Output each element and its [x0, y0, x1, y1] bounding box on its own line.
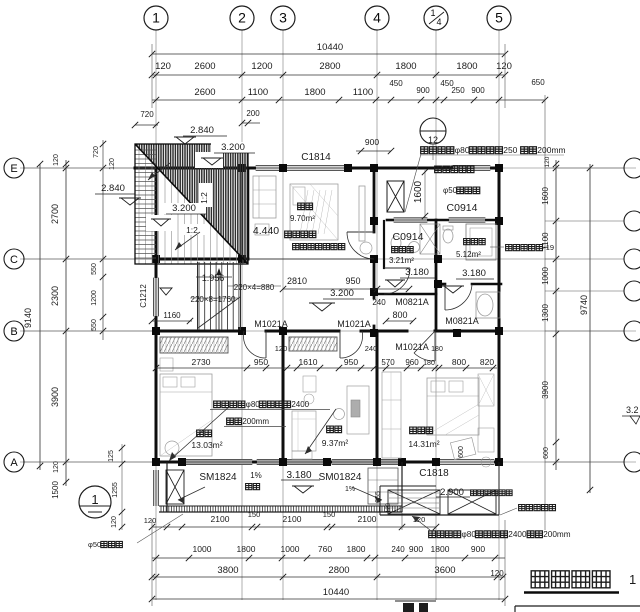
svg-text:9.37m²: 9.37m² [322, 438, 349, 448]
grid bubble 4 [365, 6, 389, 30]
svg-text:10440: 10440 [317, 42, 343, 53]
AC hatch box 1 [388, 490, 440, 514]
svg-text:1: 1 [629, 572, 636, 587]
grid line 1 [155, 30, 157, 600]
roof arrows [148, 163, 170, 180]
svg-text:200: 200 [246, 109, 260, 118]
svg-text:240: 240 [365, 344, 378, 353]
svg-text:C1818: C1818 [419, 468, 449, 479]
svg-text:1600: 1600 [541, 187, 550, 205]
svg-text:1255: 1255 [112, 482, 119, 498]
study label [327, 426, 334, 433]
roof ridge diagonal [135, 144, 248, 264]
sink left bath [409, 242, 420, 253]
svg-text:C0914: C0914 [447, 202, 478, 214]
bed bedroom1 [160, 374, 212, 456]
svg-text:900: 900 [365, 137, 379, 147]
svg-text:1100: 1100 [248, 87, 268, 98]
svg-text:1000: 1000 [193, 544, 212, 554]
wall B [154, 330, 244, 333]
svg-text:B: B [10, 326, 17, 338]
AC outdoor unit label top [435, 166, 442, 173]
svg-text:1800: 1800 [395, 61, 416, 72]
roof hatched area [136, 144, 248, 264]
grid line 2 [241, 30, 243, 600]
cabinet master right 2 [478, 428, 494, 452]
grid bubble E [4, 158, 24, 178]
left dim main column [65, 160, 67, 486]
svg-text:10440: 10440 [323, 587, 349, 598]
svg-text:C: C [10, 254, 18, 266]
svg-text:250: 250 [451, 86, 465, 95]
bottom dim row 3 [152, 576, 505, 578]
left dim line 9140 [39, 164, 41, 470]
svg-text:3900: 3900 [541, 381, 550, 399]
svg-text:2800: 2800 [328, 565, 349, 576]
window C1212 [153, 278, 159, 316]
stool bedroom1 [165, 441, 179, 455]
svg-text:φ50: φ50 [88, 540, 101, 549]
svg-text:M1021A: M1021A [395, 342, 429, 352]
balcony outline [166, 462, 168, 512]
svg-text:φ80: φ80 [246, 400, 261, 409]
stair landing marker [160, 288, 172, 295]
duct shaft between baths [420, 224, 440, 254]
svg-text:4: 4 [373, 10, 381, 26]
title 二层平面 [531, 571, 549, 588]
chair/plant study [303, 376, 316, 392]
wardrobe master (west wall) [382, 372, 401, 458]
svg-text:1.956: 1.956 [202, 273, 225, 283]
svg-text:4: 4 [436, 17, 441, 27]
grid bubble 1/4 [424, 6, 448, 30]
title underline [524, 591, 619, 593]
svg-text:240: 240 [391, 545, 405, 554]
grid line 3 [282, 30, 284, 600]
svg-text:φ80: φ80 [461, 530, 476, 539]
svg-text:800: 800 [392, 310, 407, 320]
svg-text:1: 1 [91, 492, 98, 507]
plant corner living [360, 242, 372, 254]
frame box corner bottom-right [515, 605, 640, 607]
door M0821A right bath (wall y=284) [444, 284, 446, 310]
svg-text:C0914: C0914 [393, 231, 424, 243]
svg-text:φ50: φ50 [443, 186, 458, 195]
sliding door SM1824 [182, 459, 252, 465]
wall y=294 bath left bottom [372, 293, 436, 296]
svg-text:960: 960 [405, 358, 419, 367]
svg-text:C1212: C1212 [139, 284, 148, 308]
svg-text:1%: 1% [345, 486, 355, 493]
AC outdoor unit bottom [519, 505, 525, 511]
wall x=248 living west [247, 168, 250, 259]
svg-text:655: 655 [375, 491, 382, 503]
svg-text:1800: 1800 [237, 544, 256, 554]
staircase [199, 262, 239, 330]
svg-text:1:2: 1:2 [186, 225, 198, 235]
svg-text:3.21m²: 3.21m² [389, 256, 414, 265]
window C0914 right bath [449, 218, 485, 223]
columns (black squares) [238, 164, 246, 172]
detail bubble 12 [420, 118, 446, 144]
svg-text:950: 950 [345, 276, 360, 286]
svg-text:SM1824: SM1824 [199, 472, 237, 483]
svg-text:3600: 3600 [434, 565, 455, 576]
table master (rotated) [450, 438, 475, 460]
AC platform outline [379, 486, 381, 515]
wall y=220 bath top [387, 219, 394, 222]
svg-text:950: 950 [254, 357, 268, 367]
door M0821A left bath (on wall x=384) [384, 267, 410, 269]
roof outline [135, 144, 248, 264]
svg-text:120: 120 [144, 516, 157, 525]
cut-off drawing bottom [395, 600, 436, 602]
stair up arrow [218, 272, 220, 330]
right grid half-bubble y=291 [624, 281, 640, 301]
svg-text:1800: 1800 [304, 87, 325, 98]
svg-text:120: 120 [544, 156, 551, 167]
hall dims 2810/950 [283, 288, 409, 290]
bed master bedroom [427, 378, 479, 435]
svg-text:5.12m²: 5.12m² [456, 250, 481, 259]
svg-text:950: 950 [344, 357, 358, 367]
bathtub right bath [466, 224, 496, 260]
door living room (x=377 wall) [347, 231, 374, 233]
bottom dim row 2 [152, 557, 505, 559]
svg-text:550: 550 [91, 319, 98, 331]
svg-text:12: 12 [428, 135, 438, 145]
svg-text:220×8=1760: 220×8=1760 [191, 295, 236, 304]
svg-text:2300: 2300 [50, 286, 60, 306]
AC note bedroom1 [214, 401, 221, 408]
svg-text:720: 720 [140, 110, 154, 119]
right grid half-bubble y=221 [624, 211, 640, 231]
svg-text:120: 120 [496, 61, 512, 72]
bench study [292, 411, 316, 451]
left dim sub column [102, 140, 104, 340]
svg-text:240: 240 [372, 298, 386, 307]
svg-text:650: 650 [531, 78, 545, 87]
svg-text:1160: 1160 [163, 311, 181, 320]
AC hatch box 2 [448, 490, 496, 514]
svg-text:E: E [10, 163, 17, 175]
svg-text:2.900: 2.900 [440, 487, 464, 498]
svg-text:2100: 2100 [211, 514, 230, 524]
svg-text:200mm: 200mm [537, 145, 565, 155]
grid line 1/4 [435, 30, 437, 600]
svg-text:180: 180 [423, 360, 435, 367]
bottom dim row 1 (balcony) [152, 526, 436, 528]
svg-text:120: 120 [155, 61, 171, 72]
svg-text:SM01824: SM01824 [319, 472, 362, 483]
white halos under roof texts [211, 142, 255, 153]
stair break line [198, 297, 240, 328]
svg-text:A: A [10, 457, 18, 469]
wall x=377 bedroom divider south [376, 331, 379, 462]
svg-text:600: 600 [543, 447, 550, 459]
toilet left bath [391, 236, 401, 250]
svg-text:9740: 9740 [579, 295, 589, 315]
svg-text:120: 120 [111, 516, 118, 528]
grid line A [20, 461, 636, 463]
svg-text:200mm: 200mm [242, 417, 269, 426]
svg-text:1500: 1500 [51, 481, 60, 499]
svg-text:1300: 1300 [541, 304, 550, 322]
svg-text:3.200: 3.200 [172, 203, 196, 214]
toilet right bath [443, 229, 453, 243]
svg-text:9.70m²: 9.70m² [290, 214, 315, 223]
svg-text:570: 570 [381, 358, 395, 367]
svg-text:9140: 9140 [23, 308, 33, 328]
svg-text:1100: 1100 [353, 87, 373, 98]
section bubble 1 [79, 486, 111, 518]
wall C (stair top) [154, 258, 248, 261]
svg-text:1800: 1800 [431, 544, 450, 554]
grid bubble 3 [271, 6, 295, 30]
grid line E [20, 167, 636, 169]
svg-text:3: 3 [279, 10, 287, 26]
svg-text:13.03m²: 13.03m² [191, 440, 222, 450]
svg-text:1200: 1200 [91, 290, 98, 306]
grid bubble 2 [230, 6, 254, 30]
right grid half-bubble y=331 [624, 321, 640, 341]
right grid half-bubble y=259 [624, 249, 640, 269]
svg-text:120: 120 [275, 344, 288, 353]
right dim column [555, 160, 557, 470]
balcony railing hatch [161, 507, 400, 512]
note bath detail [506, 245, 512, 251]
svg-text:M0821A: M0821A [445, 316, 479, 326]
svg-text:1000: 1000 [541, 267, 550, 285]
svg-text:3.180: 3.180 [462, 268, 486, 279]
svg-text:900: 900 [409, 544, 423, 554]
grid line C [20, 258, 556, 260]
wall x=436 bath divider [435, 220, 438, 331]
living room labels [298, 203, 305, 210]
svg-text:-19: -19 [543, 243, 554, 252]
svg-text:2800: 2800 [319, 61, 340, 72]
svg-text:900: 900 [471, 86, 485, 95]
svg-text:180: 180 [431, 346, 443, 353]
svg-text:820: 820 [480, 357, 494, 367]
svg-text:2400: 2400 [508, 530, 527, 539]
svg-text:120: 120 [386, 502, 392, 513]
svg-text:3.200: 3.200 [221, 142, 245, 153]
svg-text:200mm: 200mm [543, 530, 570, 539]
extension verticals top [151, 44, 153, 108]
sofa living room [253, 176, 276, 218]
svg-text:1000: 1000 [281, 544, 300, 554]
grid bubble C [4, 249, 24, 269]
bedroom1 label [197, 430, 204, 437]
top dimension row 2 [152, 74, 505, 76]
desk study (right wall) [347, 386, 369, 434]
right dim 9740 [589, 164, 591, 493]
master bedroom label [410, 427, 417, 434]
svg-text:1800: 1800 [456, 61, 477, 72]
svg-text:2730: 2730 [192, 357, 211, 367]
svg-text:120: 120 [53, 154, 60, 166]
svg-text:M0821A: M0821A [395, 297, 429, 307]
svg-text:760: 760 [318, 544, 332, 554]
wardrobe bedroom1 (hatched) [160, 337, 228, 353]
nightstand bedroom1 [160, 358, 173, 371]
svg-text:2.840: 2.840 [101, 183, 125, 194]
door M1021A master bedroom [414, 331, 435, 353]
left bubbles leader lines [23, 167, 156, 169]
svg-text:2600: 2600 [194, 61, 215, 72]
svg-text:3.2: 3.2 [626, 405, 639, 415]
svg-text:2.840: 2.840 [190, 125, 214, 136]
svg-text:M1021A: M1021A [337, 319, 371, 329]
shaft with X (duct) [387, 181, 404, 212]
balcony AC unit box [166, 470, 184, 504]
svg-text:120: 120 [490, 569, 504, 578]
svg-text:2100: 2100 [358, 514, 377, 524]
door M1021A bedroom 1 (wall B) [265, 331, 267, 358]
wall x=242 roof/stair [241, 168, 243, 259]
bottom dim row 4 10440 [152, 598, 505, 600]
svg-text:3.180: 3.180 [405, 267, 429, 278]
grid bubble A [4, 452, 24, 472]
window C1818 [437, 459, 494, 465]
svg-text:900: 900 [471, 544, 485, 554]
svg-text:3900: 3900 [50, 387, 60, 407]
wall x=499 right exterior [498, 168, 501, 463]
wall x=283 bedroom divider [282, 331, 285, 462]
partition line living/hall (user-built) [248, 258, 377, 260]
cabinet master right 1 [478, 374, 494, 406]
grid line B [20, 330, 636, 332]
svg-text:2600: 2600 [194, 87, 215, 98]
window C1814 [256, 165, 348, 171]
svg-text:550: 550 [91, 263, 98, 275]
svg-text:120: 120 [53, 461, 60, 473]
right bath labels [464, 239, 470, 245]
svg-text:1600: 1600 [413, 180, 424, 203]
grid line 4 [376, 30, 378, 600]
svg-text:125: 125 [108, 450, 115, 462]
bed living room [290, 184, 338, 240]
svg-text:2100: 2100 [283, 514, 302, 524]
wall y=284 right bath bottom [436, 283, 445, 286]
right bubble leaders [545, 167, 624, 169]
grid bubble 5 [487, 6, 511, 30]
top dimension row 3 [152, 99, 545, 101]
door M1021A study (wall B) [339, 331, 341, 358]
svg-text:1%: 1% [250, 471, 262, 480]
svg-text:1:2: 1:2 [199, 192, 209, 204]
svg-text:φ80: φ80 [455, 145, 470, 155]
grid line 5 [498, 30, 500, 600]
svg-text:14.31m²: 14.31m² [408, 439, 439, 449]
svg-text:C1814: C1814 [301, 152, 331, 163]
svg-text:3800: 3800 [217, 565, 238, 576]
svg-text:2810: 2810 [287, 276, 307, 286]
balcony label [246, 484, 252, 490]
svg-text:1: 1 [430, 8, 435, 18]
svg-text:800: 800 [452, 357, 466, 367]
svg-text:250: 250 [503, 145, 517, 155]
window C0914 left bath [394, 218, 427, 223]
svg-text:1800: 1800 [347, 544, 366, 554]
balcony slope arrows 1% [178, 487, 205, 500]
svg-text:1610: 1610 [299, 357, 318, 367]
svg-text:2: 2 [238, 10, 246, 26]
svg-text:450: 450 [389, 79, 403, 88]
svg-text:720: 720 [93, 146, 100, 158]
basin nook [477, 294, 493, 316]
stair side rails [197, 262, 199, 330]
ext line balcony right [401, 512, 403, 530]
svg-text:600: 600 [458, 446, 465, 458]
tv cabinet living [359, 186, 365, 241]
svg-text:1: 1 [152, 10, 160, 26]
svg-text:3.180: 3.180 [286, 470, 311, 481]
left bath labels [392, 247, 398, 253]
AC note bottom [429, 531, 436, 538]
B row sub dims [156, 367, 497, 369]
svg-text:220×4=880: 220×4=880 [234, 283, 275, 292]
wall x=156 (left exterior) [155, 168, 158, 278]
wardrobe study (hatched) [289, 337, 337, 351]
window C0914 top [453, 165, 490, 171]
svg-text:1200: 1200 [251, 61, 272, 72]
bath west wall x=384 [383, 221, 385, 268]
grid bubble 1 [144, 6, 168, 30]
sliding door middle [257, 459, 327, 465]
wall x=374 center vertical [373, 168, 376, 232]
svg-text:M1021A: M1021A [254, 319, 288, 329]
wall A (bottom) [154, 461, 182, 464]
svg-text:900: 900 [416, 86, 430, 95]
top dimension line 10440 [152, 53, 505, 55]
right grid half-bubble y=462 [624, 452, 640, 472]
grid bubble B [4, 321, 24, 341]
svg-text:2700: 2700 [50, 204, 60, 224]
svg-text:4.440: 4.440 [253, 225, 279, 237]
svg-text:3.200: 3.200 [330, 288, 354, 299]
svg-text:2400: 2400 [291, 400, 309, 409]
right grid half-bubble y=168 [624, 158, 640, 178]
AC note top [421, 147, 428, 154]
sliding door SM01824 [332, 459, 402, 465]
balcony washing box [368, 468, 398, 504]
svg-text:5: 5 [495, 10, 503, 26]
exterior wall E (top) [135, 167, 256, 170]
